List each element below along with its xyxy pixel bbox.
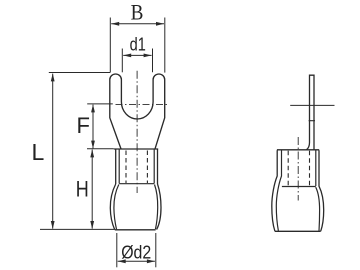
side view dashed line right (309, 151, 311, 186)
side view axis line (290, 104, 334, 106)
sleeve bulge outer left (110, 184, 115, 230)
svg-text:d1: d1 (130, 34, 146, 54)
dimension B extension line left (109, 18, 111, 73)
side view right outer edge (319, 150, 324, 231)
barrel inner left line (118, 150, 120, 184)
wire hole dashed right (146, 151, 148, 184)
sleeve bulge inner left (114, 185, 119, 230)
dimension d2 extension line right (155, 233, 157, 267)
bottom extension line (40, 228, 115, 230)
side view slot-bottom tick (309, 120, 315, 122)
barrel outer left edge (115, 150, 117, 185)
side view dashed line left (287, 151, 289, 186)
dimension d1 extension line right (152, 49, 154, 73)
crimp bottom line (119, 183, 154, 185)
centerline vertical (front view) (136, 71, 138, 193)
centerline horizontal (slot crosshair) (116, 104, 170, 106)
dimension d2 arrow line (118, 259, 155, 263)
dimension F arrow line (91, 104, 95, 148)
barrel outer right edge (157, 150, 159, 185)
dimension L extension line top (49, 72, 110, 74)
side view tongue (306, 75, 314, 150)
dimension H arrow line (90, 149, 94, 229)
dimension B extension line right (164, 18, 166, 73)
barrel inner right line (153, 150, 155, 184)
dimension F extension line top (87, 103, 113, 105)
side view left outer edge (272, 150, 277, 231)
side view centerline (297, 137, 299, 201)
barrel bottom edge (115, 229, 156, 231)
sleeve bulge outer right (157, 184, 161, 230)
side view right inner bulge edge (316, 187, 320, 231)
side view left inner edge (276, 150, 281, 231)
dimension B arrow line (111, 22, 164, 26)
svg-text:F: F (77, 113, 90, 138)
fork outline (front view) (110, 74, 165, 149)
dimension H extension line (barrel top, continues left) (87, 148, 114, 150)
dimension L arrow line (51, 73, 55, 229)
side view inner right sleeve line (315, 150, 317, 186)
side view barrel top edge (277, 149, 319, 151)
svg-text:L: L (32, 139, 45, 165)
side view sleeve step line (282, 186, 316, 188)
sleeve bulge inner right (155, 185, 158, 230)
dimension d1 extension line left (121, 49, 123, 73)
svg-text:B: B (131, 0, 144, 24)
dimension d2 extension line left (116, 233, 118, 267)
barrel top edge (114, 148, 158, 150)
dimension d1 arrow line (123, 54, 151, 58)
wire hole dashed left (125, 151, 127, 184)
svg-text:Ød2: Ød2 (121, 242, 151, 262)
side view bottom edge (275, 230, 321, 232)
svg-text:H: H (76, 177, 89, 202)
